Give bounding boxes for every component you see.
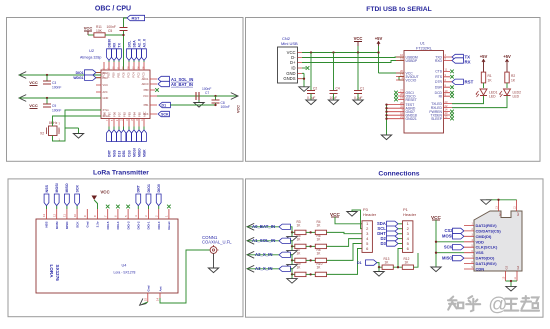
power VCC [29, 103, 38, 109]
svg-text:VCC: VCC [84, 26, 93, 31]
svg-text:RST: RST [132, 16, 141, 21]
top pin numbers [42, 213, 168, 217]
connector CN2 labels [281, 36, 298, 46]
svg-text:D1: D1 [162, 104, 167, 108]
capacitor C8 [212, 96, 230, 109]
module U4 body [36, 219, 178, 293]
no-connect X on ID [302, 66, 309, 70]
svg-text:G4: G4 [516, 265, 520, 269]
svg-text:DB1: DB1 [122, 150, 126, 157]
off-page arrow (Gnd) [140, 298, 148, 305]
power +5V (R1) [480, 54, 488, 72]
net tag D1 (bottom) [357, 260, 382, 267]
net tag TX [452, 54, 470, 59]
junction [357, 51, 359, 53]
IC U1 left pin names [406, 55, 419, 121]
net tag MOSI [132, 130, 137, 157]
ground [287, 273, 297, 283]
header P3 pin numbers [366, 221, 369, 251]
frame box FTDI [246, 18, 541, 162]
svg-text:ADC1: ADC1 [142, 77, 149, 81]
off-page arrow VCC right [231, 93, 241, 113]
svg-text:Lora - SX1278: Lora - SX1278 [114, 271, 136, 275]
glyph 知 [448, 297, 457, 310]
svg-text:DTR: DTR [435, 80, 443, 84]
svg-text:D13: D13 [117, 151, 121, 157]
no-connect X OSCI OSCO [394, 91, 398, 95]
resistor R8 [315, 248, 326, 263]
junction [46, 74, 48, 76]
svg-text:12: 12 [52, 213, 56, 217]
net tag A2_X [137, 38, 142, 60]
svg-text:LED: LED [489, 95, 496, 99]
resistor R2 [505, 72, 516, 83]
left pin numbers [400, 53, 403, 119]
svg-text:ID: ID [291, 66, 295, 71]
svg-text:A3_X_IN: A3_X_IN [255, 266, 272, 271]
svg-text:DB30: DB30 [107, 39, 111, 48]
wire [247, 240, 279, 242]
svg-text:VCC: VCC [29, 103, 38, 108]
no-connect X DIO-5 DIO-4 DIO-3 [106, 205, 110, 209]
junction [332, 51, 334, 53]
svg-text:MISO: MISO [137, 148, 141, 157]
no-connect X PWREN TXDEN SLEEP [450, 110, 454, 114]
svg-text:VCC: VCC [103, 83, 109, 87]
svg-text:PC3: PC3 [142, 72, 146, 78]
svg-text:LORA: LORA [49, 265, 54, 279]
svg-text:11: 11 [63, 214, 67, 217]
svg-text:3.3v: 3.3v [96, 221, 100, 227]
row A1_SOL_IN : off-page arrow [247, 237, 254, 244]
ground [65, 128, 84, 138]
wire VSS row [435, 252, 464, 254]
net tag [279, 266, 290, 271]
svg-text:100nF: 100nF [52, 109, 61, 113]
svg-text:TX: TX [117, 42, 121, 47]
resistor R12 [402, 257, 413, 270]
svg-text:SX1276: SX1276 [55, 265, 60, 282]
svg-text:MOSI: MOSI [132, 148, 136, 157]
svg-text:PC2: PC2 [137, 72, 141, 78]
net tag RX [112, 42, 117, 60]
svg-text:U4: U4 [122, 263, 127, 267]
svg-text:COAXIAL_U.FL: COAXIAL_U.FL [202, 240, 232, 245]
svg-text:A2_X_IN: A2_X_IN [255, 252, 272, 257]
svg-text:G1: G1 [498, 212, 502, 216]
svg-text:GND: GND [103, 96, 109, 100]
svg-text:RXD: RXD [435, 59, 443, 63]
wire CONN1 shield to ground [213, 253, 215, 268]
wire + ground (top tabs) [481, 199, 517, 205]
net tag A1_SOL_IN [158, 76, 193, 82]
no-connect X [155, 88, 159, 92]
module U4 bottom pins Gnd Ant [143, 285, 162, 302]
net tag D3 [380, 241, 402, 246]
svg-text:MISO: MISO [65, 183, 69, 192]
net tag DIO1 [76, 70, 101, 75]
svg-text:DIO-4: DIO-4 [116, 221, 120, 229]
wire [247, 254, 279, 256]
capacitor C2 [307, 53, 317, 101]
svg-text:8MHz: 8MHz [49, 121, 58, 125]
IC U2 inner pin names [102, 71, 150, 118]
svg-text:PD0: PD0 [112, 72, 116, 78]
top pin numbers [104, 66, 146, 69]
net tag WDG1 [73, 75, 101, 80]
svg-text:MOSI: MOSI [442, 234, 452, 239]
svg-text:DIO-3: DIO-3 [126, 221, 130, 229]
svg-text:@: @ [488, 295, 507, 316]
svg-text:PD6: PD6 [113, 111, 117, 117]
svg-text:U1: U1 [420, 42, 425, 46]
net tag MISO [442, 255, 464, 260]
junction [122, 34, 124, 36]
SD tab pins G3 G4 [502, 265, 520, 281]
wire + junction [306, 259, 315, 261]
svg-text:VCC: VCC [29, 80, 38, 85]
svg-text:C7: C7 [205, 91, 209, 95]
svg-text:+5V: +5V [375, 36, 383, 41]
ground (CN2 shield) [299, 73, 309, 91]
ground [287, 259, 297, 269]
power VCC (SD) [431, 215, 442, 267]
svg-text:VCC: VCC [237, 105, 241, 113]
svg-text:G2: G2 [516, 212, 520, 216]
svg-text:A2_X: A2_X [137, 38, 141, 47]
wire [88, 34, 94, 36]
header P1 labels [403, 207, 417, 217]
svg-text:C4: C4 [336, 87, 340, 91]
capacitor C7 [196, 87, 211, 100]
svg-text:RX: RX [465, 60, 471, 65]
net tag A0_BAT_IN [158, 81, 193, 87]
header P1 pin numbers [407, 221, 410, 251]
svg-text:CLK(SCLK): CLK(SCLK) [476, 245, 498, 250]
right pin numbers [445, 53, 448, 119]
connector CN2 body [278, 47, 298, 83]
LED1 [476, 83, 498, 99]
junction [46, 97, 48, 99]
svg-text:X2: X2 [40, 132, 44, 136]
svg-text:Atmega 328p: Atmega 328p [80, 56, 101, 60]
resistor R5 [295, 234, 306, 249]
IC U2 body [101, 70, 150, 119]
net tag D13 [117, 130, 122, 157]
net tag RST [452, 79, 474, 84]
IC U2 bottom stubs [109, 119, 144, 127]
resistor R11 [94, 25, 105, 37]
net tag SCL [127, 41, 132, 61]
svg-text:CTS: CTS [435, 70, 443, 74]
svg-text:DAT1(RSV): DAT1(RSV) [476, 261, 498, 266]
svg-text:VCC: VCC [143, 94, 149, 98]
left off-page arrow 2 [19, 95, 26, 102]
svg-text:D+: D+ [290, 60, 296, 65]
svg-text:VCCIO: VCCIO [406, 78, 417, 82]
net tag D1 [159, 102, 217, 107]
wire step down [290, 269, 294, 275]
connector CN2 pin names [283, 50, 296, 81]
row A0_BAT_IN : off-page arrow [247, 223, 254, 230]
junction [214, 95, 216, 97]
power VCC [92, 190, 111, 210]
watermark zhihu (vector glyphs) [448, 296, 539, 311]
junction [377, 51, 379, 53]
svg-text:PB3: PB3 [128, 112, 132, 117]
net tag NSS [112, 130, 117, 157]
wire [247, 268, 279, 270]
net tag SCK [75, 185, 80, 206]
SD socket left stubs [464, 225, 474, 269]
connector CONN1 labels [202, 235, 232, 245]
wire [19, 97, 101, 99]
net tag DRT [136, 184, 141, 205]
svg-text:DAT0(DO): DAT0(DO) [476, 256, 495, 261]
svg-text:FTDI USB to SERIAL: FTDI USB to SERIAL [366, 6, 431, 13]
svg-text:Reset: Reset [167, 222, 171, 230]
svg-text:10: 10 [73, 213, 77, 217]
svg-text:XTL1: XTL1 [103, 108, 110, 112]
no-connect X DSR DCD RI [450, 85, 454, 89]
capacitor C5 [107, 25, 128, 33]
svg-text:PC5: PC5 [127, 72, 131, 78]
capacitor C3 [43, 75, 61, 90]
svg-text:RST: RST [465, 80, 474, 85]
svg-text:C1: C1 [360, 87, 364, 91]
module U4 top pin stubs [47, 209, 169, 219]
svg-text:MOSI: MOSI [55, 221, 59, 229]
svg-text:C5: C5 [108, 29, 112, 33]
wire to P3 pin5 [327, 244, 363, 261]
svg-text:C2: C2 [313, 87, 317, 91]
svg-text:SCK: SCK [444, 245, 453, 250]
svg-text:A3_X: A3_X [142, 38, 146, 47]
svg-text:Mini USB: Mini USB [281, 41, 298, 46]
svg-text:DIO-0: DIO-0 [157, 221, 161, 229]
svg-text:OBC / CPU: OBC / CPU [95, 6, 131, 13]
ground (P3 pin2) [347, 210, 362, 229]
capacitor C4 [330, 53, 340, 101]
svg-text:RTS: RTS [435, 75, 442, 79]
net tag [279, 238, 290, 243]
wire links top tags [47, 206, 159, 209]
glyph 超 [521, 296, 539, 311]
svg-text:100nF: 100nF [52, 86, 61, 90]
resistor R13 [382, 257, 393, 270]
net tag MISO [137, 130, 142, 157]
frame box OBC/CPU [7, 18, 244, 162]
junction [310, 51, 312, 53]
svg-text:PD2: PD2 [103, 71, 109, 75]
ground [374, 266, 384, 276]
svg-text:+5V: +5V [480, 54, 488, 59]
IC U1 left stubs [387, 57, 405, 119]
net tag A3_X [142, 38, 147, 60]
svg-text:DIO0: DIO0 [157, 184, 161, 192]
wire 3V3OUT to VCCIO [399, 77, 404, 81]
IC U2 top pin stubs [104, 62, 144, 70]
wire step down [290, 227, 294, 233]
svg-text:LoRa Transmitter: LoRa Transmitter [93, 170, 149, 177]
svg-text:VDD: VDD [476, 239, 485, 244]
op IC U2 label [80, 48, 101, 60]
IC U1 right pin names [429, 55, 442, 121]
wire [247, 226, 279, 228]
svg-text:MISO: MISO [65, 221, 69, 229]
left off-page arrow 1 [19, 72, 26, 79]
svg-text:15: 15 [143, 297, 147, 301]
SD socket body [474, 211, 522, 271]
ground [208, 268, 218, 273]
wire VDD row to VCC rail [435, 241, 464, 243]
wire LED2 to RXLED [452, 96, 507, 108]
ground [287, 231, 297, 241]
net tag DHT [377, 231, 402, 236]
wire + junction [306, 231, 315, 233]
net tag [279, 224, 290, 229]
svg-text:G3: G3 [505, 265, 509, 269]
svg-text:VCC: VCC [354, 36, 363, 41]
svg-text:DSR: DSR [435, 86, 443, 90]
resistor R10 [315, 262, 326, 277]
svg-text:SCK: SCK [75, 221, 79, 228]
net tag DB1 [121, 130, 126, 157]
svg-text:D3: D3 [380, 241, 386, 246]
capacitor C9 [43, 98, 61, 113]
ground [353, 100, 363, 105]
wire step down [290, 255, 294, 261]
svg-text:WDG1: WDG1 [73, 76, 83, 80]
svg-text:+5V: +5V [503, 54, 511, 59]
svg-text:DIO1: DIO1 [147, 184, 151, 192]
ground [328, 100, 338, 105]
wire to P3 pin4 [327, 239, 363, 247]
net tag D2 [380, 236, 402, 241]
wire [105, 22, 123, 70]
header P1 body [403, 221, 413, 253]
net tag SDA [132, 40, 137, 61]
net tag CS3 [127, 130, 132, 157]
svg-text:C9: C9 [52, 104, 56, 108]
net tag [279, 252, 290, 257]
wire D+ to USBDP [302, 61, 404, 63]
svg-text:GNDS: GNDS [283, 76, 295, 81]
svg-text:AVC: AVC [103, 90, 108, 94]
svg-text:CD/DAT3(CS): CD/DAT3(CS) [476, 228, 502, 233]
wire links bottom tags [109, 127, 144, 130]
svg-text:SDA: SDA [132, 40, 136, 48]
svg-text:Gnd: Gnd [147, 285, 151, 291]
IC U1 labels [416, 42, 432, 51]
net tag SCK [444, 245, 464, 250]
LED2 [500, 83, 522, 99]
svg-text:RI: RI [439, 95, 442, 99]
svg-text:VCC: VCC [431, 215, 442, 220]
wire Ant to CONN1 [160, 250, 210, 303]
capacitor C1 [354, 53, 364, 101]
svg-text:VSS: VSS [476, 250, 484, 255]
resistor R3 [295, 220, 306, 235]
net tag TX [117, 42, 122, 60]
wire step down [290, 241, 294, 247]
wire +5V to VCC pin [379, 72, 405, 74]
ground [194, 100, 204, 107]
IC U2 right stubs [150, 79, 157, 114]
connector CN2 pin stubs [298, 53, 303, 79]
net tag SDA [377, 221, 403, 226]
svg-text:DAT2(RSV): DAT2(RSV) [476, 223, 498, 228]
svg-text:A1_SOL_IN: A1_SOL_IN [252, 238, 275, 243]
wire [124, 18, 128, 22]
wire AREF row [157, 95, 237, 97]
svg-text:PC6: PC6 [122, 72, 126, 78]
row A3_X_IN : off-page arrow [247, 265, 254, 272]
wire + junction [306, 245, 315, 247]
crystal X2 [40, 121, 61, 142]
svg-text:VCC: VCC [330, 212, 341, 217]
net tag DIO1 [146, 184, 151, 205]
power +5V [375, 36, 383, 73]
SD tab pins G1 G2 [495, 200, 520, 216]
net tag NSS [44, 185, 49, 206]
wire LED1 to TXLED [452, 96, 484, 104]
ground rail (AGND/GND) [381, 103, 391, 139]
svg-text:14: 14 [156, 297, 160, 301]
svg-text:PD1: PD1 [117, 72, 121, 78]
net tag RX [452, 58, 471, 65]
svg-text:PD7: PD7 [118, 111, 122, 117]
svg-text:DRT: DRT [137, 184, 141, 192]
wire [414, 253, 419, 267]
svg-text:R1: R1 [488, 74, 492, 78]
net tag MSK [142, 130, 147, 157]
power VCC [354, 36, 363, 53]
no-connect X Reset [167, 205, 171, 209]
net tag MOSI [54, 183, 59, 205]
net tag MISO [65, 183, 70, 205]
svg-text:GND21: GND21 [406, 117, 417, 121]
svg-text:ADC0: ADC0 [142, 82, 149, 86]
svg-text:LED: LED [513, 95, 520, 99]
svg-text:13: 13 [42, 213, 46, 217]
svg-text:SCL: SCL [127, 41, 131, 48]
svg-text:PB5: PB5 [138, 112, 142, 117]
svg-text:CS2: CS2 [445, 228, 454, 233]
IC U1 right stubs [444, 57, 453, 119]
net tag DB30 (top group 1) [107, 39, 112, 61]
wire + junction [306, 273, 315, 275]
svg-text:PB7: PB7 [108, 112, 112, 117]
net tag DRT (bottom) [107, 130, 112, 157]
power VCC (top) [84, 26, 93, 36]
IC U2 left stubs [96, 73, 101, 93]
svg-text:PB6: PB6 [103, 112, 107, 117]
connector CONN1 coaxial symbol [210, 245, 218, 253]
svg-text:A0_BAT_IN: A0_BAT_IN [252, 224, 275, 229]
header P3 body [362, 221, 372, 253]
svg-text:GND: GND [286, 71, 295, 76]
SD pin numbers [471, 223, 473, 270]
resistor R7 [295, 248, 306, 263]
svg-text:SCK: SCK [161, 113, 169, 117]
svg-text:DRT: DRT [107, 149, 111, 157]
wire links tags to pins [109, 60, 144, 62]
wire D- to USBDM [302, 56, 404, 59]
svg-text:MSK: MSK [142, 149, 146, 157]
svg-text:USBDP: USBDP [406, 59, 418, 63]
svg-text:R2: R2 [511, 74, 515, 78]
